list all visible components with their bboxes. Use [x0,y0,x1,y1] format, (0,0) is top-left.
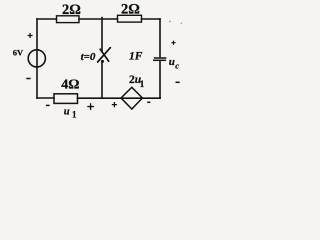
svg-text:u: u [64,107,70,118]
svg-text:1: 1 [140,80,145,90]
background paper [0,0,207,121]
resistor R1 2ohm box [57,16,80,23]
svg-text:2Ω: 2Ω [62,2,81,18]
wire R2 to top-right corner [142,18,161,20]
svg-text:u: u [169,56,175,68]
svg-text:t=0: t=0 [81,51,96,63]
wire right branch upper (to capacitor) [159,19,161,57]
svg-text:2Ω: 2Ω [121,2,140,18]
wire R1 to R2 (through top node) [79,18,118,20]
svg-text:1F: 1F [129,50,143,62]
plus sign dependent source left [112,102,117,107]
speck [169,21,171,23]
svg-text:1: 1 [72,109,77,119]
wire left branch (through source circle) [36,19,38,98]
switch bottom terminal dot [101,60,104,63]
wire middle branch lower (switch to bottom rail) [101,62,103,99]
resistor R3 4ohm box [54,94,78,104]
wire middle branch upper (node to switch) [101,18,103,52]
dependent source U2 diamond [121,87,142,109]
wire top-left to R1 [37,18,57,20]
minus sign dependent source right [147,101,150,103]
switch S1 blade [98,48,111,62]
plus sign capacitor [171,41,175,45]
resistor R2 2ohm box [118,15,142,22]
minus sign u1 left [46,104,50,106]
wire 4ohm to bottom-left corner [37,97,54,99]
plus sign source top [28,33,33,38]
minus sign capacitor [176,81,180,83]
svg-text:6V: 6V [13,48,24,58]
wire bottom rail right (corner through diamond to node B) [78,97,161,99]
svg-text:4Ω: 4Ω [61,78,79,93]
capacitor C1 top plate [154,57,167,59]
svg-text:c: c [175,60,179,70]
speck [181,22,183,24]
wire right branch lower (capacitor to corner) [159,61,161,98]
minus sign source bottom [26,78,30,80]
voltage source V1 circle [28,50,45,67]
capacitor C1 bottom plate [153,59,166,61]
plus sign u1 right [87,103,94,110]
